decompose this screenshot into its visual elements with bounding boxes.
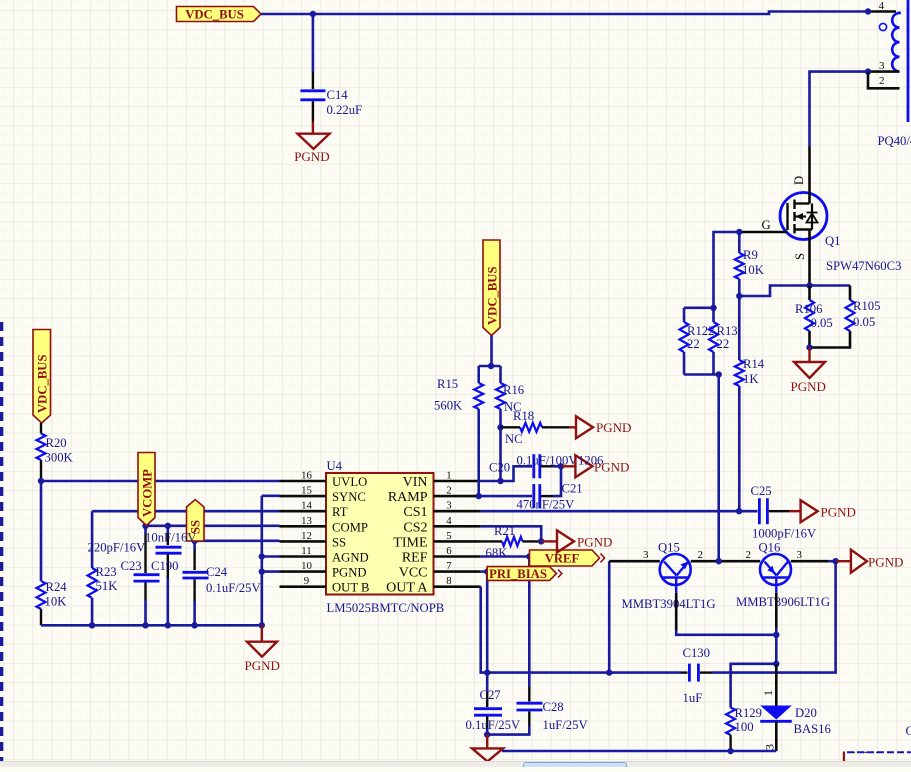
node R20 bottom / UVLO <box>38 478 44 484</box>
power port VREF <box>530 550 600 566</box>
svg-text:C21: C21 <box>562 482 583 496</box>
svg-text:S: S <box>793 253 807 260</box>
svg-text:C14: C14 <box>327 88 349 102</box>
pin 4 CS2 <box>434 525 481 528</box>
op-amp/controller U4 LM5025BMTC/NOPB <box>326 473 434 595</box>
svg-text:C24: C24 <box>206 565 228 579</box>
wire SS line <box>195 539 280 542</box>
svg-text:VIN: VIN <box>403 475 428 490</box>
node junction at C14 <box>310 11 316 17</box>
svg-text:2: 2 <box>746 549 752 561</box>
capacitor C28 1uF/25V <box>517 703 543 710</box>
node Q16/PGND/C130 <box>832 558 838 564</box>
svg-text:R18: R18 <box>513 409 534 423</box>
wire RT line <box>92 510 279 513</box>
power port VCOMP (vertical) <box>138 453 155 526</box>
wire pin3 to Q1 drain <box>810 72 869 147</box>
capacitor C20 0.1uF/100V 1206 <box>534 454 540 478</box>
wire Q15-Q16 collector link <box>691 560 761 563</box>
transistor Q15 MMBT3904LT1G (NPN) <box>660 554 691 593</box>
wire CS1 line pin3 <box>481 510 739 513</box>
svg-text:C25: C25 <box>751 484 772 498</box>
svg-text:C190: C190 <box>151 559 179 573</box>
svg-text:PGND: PGND <box>332 566 367 580</box>
diode D20 BAS16 <box>775 664 778 706</box>
svg-text:10nF/16V: 10nF/16V <box>145 531 197 545</box>
node rail end <box>259 622 265 628</box>
wire Q15 base down <box>675 593 678 630</box>
svg-text:SPW47N60C3: SPW47N60C3 <box>826 259 901 273</box>
svg-text:100: 100 <box>735 720 754 734</box>
svg-text:10K: 10K <box>45 595 68 609</box>
svg-text:220pF/16V: 220pF/16V <box>88 541 147 555</box>
power port PRI_BIAS <box>487 567 556 581</box>
node Q1 source <box>806 282 812 288</box>
resistor R105 0.05 <box>810 286 851 348</box>
svg-text:6: 6 <box>446 545 452 557</box>
transistor Q16 MMBT3906LT1G (PNP) <box>760 554 791 593</box>
svg-text:2: 2 <box>879 75 885 87</box>
node collectors to divider <box>716 558 722 564</box>
resistor R23 51K <box>91 511 94 568</box>
svg-text:LM5025BMTC/NOPB: LM5025BMTC/NOPB <box>327 601 445 615</box>
pin 3 CS1 <box>434 510 481 513</box>
resistor R106 0.05 <box>808 286 811 348</box>
node bases join <box>773 632 779 638</box>
wire bottom ground rail <box>502 750 776 753</box>
node divider bottom <box>716 371 722 377</box>
svg-text:0.22uF: 0.22uF <box>327 103 363 117</box>
svg-text:PQ40/4: PQ40/4 <box>878 134 911 148</box>
svg-text:NC: NC <box>505 432 523 446</box>
selection marquee bottom right <box>843 752 845 762</box>
svg-text:PRI_BIAS: PRI_BIAS <box>489 567 547 581</box>
svg-text:C20: C20 <box>489 461 510 475</box>
svg-text:1uF: 1uF <box>683 691 703 705</box>
transistor Q1 SPW47N60C3 (NMOS) <box>739 147 827 286</box>
svg-text:VREF: VREF <box>545 552 580 566</box>
pin 8 OUT A <box>434 585 481 588</box>
wire PGND stub <box>262 570 280 573</box>
svg-text:D: D <box>792 176 806 185</box>
svg-text:VDC_BUS: VDC_BUS <box>185 7 244 21</box>
resistor R18 NC (horizontal) <box>501 426 521 428</box>
node C20/C21 right <box>558 463 564 469</box>
ground PGND arrow at C25 <box>789 510 801 512</box>
svg-text:UVLO: UVLO <box>332 475 367 489</box>
node R23 rail <box>89 622 95 628</box>
svg-text:R23: R23 <box>96 565 117 579</box>
node PGND pin <box>259 568 265 574</box>
power port VDC_BUS (middle, vertical) <box>483 240 500 336</box>
svg-text:0.05: 0.05 <box>853 315 875 329</box>
svg-text:3: 3 <box>797 549 803 561</box>
svg-text:PGND: PGND <box>868 555 903 570</box>
svg-text:13: 13 <box>301 515 312 527</box>
wire RAMP pin2 to C21 <box>481 495 532 498</box>
svg-text:51K: 51K <box>96 579 119 593</box>
svg-text:15: 15 <box>301 485 312 497</box>
wire VREF branch down to C28 <box>528 557 531 688</box>
svg-text:C27: C27 <box>480 688 501 702</box>
wire CS2 pin4 jog to TIME row <box>481 526 541 541</box>
svg-text:1000pF/16V: 1000pF/16V <box>752 527 817 541</box>
ground PGND below C27 <box>486 735 488 749</box>
pin 6 REF <box>434 555 481 558</box>
svg-text:TIME: TIME <box>393 535 427 550</box>
svg-text:1K: 1K <box>743 372 759 386</box>
svg-text:7: 7 <box>446 560 452 572</box>
svg-text:14: 14 <box>301 500 312 512</box>
wire R9 to source node <box>739 286 809 297</box>
node sense bottom <box>806 344 812 350</box>
svg-text:22: 22 <box>717 337 730 351</box>
resistor R129 100 <box>726 708 735 735</box>
wire gate network <box>714 232 740 308</box>
pin 11 AGND <box>280 555 327 558</box>
svg-text:3: 3 <box>763 744 777 750</box>
svg-text:0.1uF/25V: 0.1uF/25V <box>206 581 261 595</box>
svg-text:8: 8 <box>446 575 451 587</box>
svg-text:470nF/25V: 470nF/25V <box>517 498 576 512</box>
svg-text:R20: R20 <box>46 436 67 450</box>
svg-text:PGND: PGND <box>245 658 280 673</box>
ground PGND arrow at C20 <box>561 465 575 467</box>
svg-text:R24: R24 <box>46 580 68 594</box>
power port SS (vertical, point up) <box>187 500 205 542</box>
svg-text:1: 1 <box>761 690 775 696</box>
svg-text:R21: R21 <box>494 524 515 538</box>
node AGND <box>259 553 265 559</box>
resistor R21 68K (horizontal) on pin5 <box>481 540 502 542</box>
power port VDC_BUS (left, vertical) <box>33 330 51 424</box>
capacitor C23 220pF/16V <box>144 526 147 534</box>
wire Q16 right to PGND <box>791 560 828 563</box>
svg-text:68K: 68K <box>486 546 509 560</box>
node C190 top <box>165 523 171 529</box>
node R16/R18 <box>497 424 503 430</box>
svg-text:C23: C23 <box>121 559 142 573</box>
wire COMP line <box>146 524 280 527</box>
svg-text:16: 16 <box>301 470 312 482</box>
pin 10 PGND <box>280 570 327 573</box>
wire REF pin6 to VREF <box>481 555 530 558</box>
svg-text:R13: R13 <box>717 324 738 338</box>
wire R122/R13 top rail <box>684 306 714 309</box>
svg-text:U4: U4 <box>327 459 343 473</box>
node C24 top / SS <box>191 538 197 544</box>
capacitor C25 1000pF/16V (series) <box>739 510 757 513</box>
svg-text:C28: C28 <box>543 700 564 714</box>
wire VDC_BUS stem to R15/R16 <box>490 336 493 367</box>
svg-text:3: 3 <box>879 60 885 72</box>
node R129 rail <box>727 748 733 754</box>
svg-text:COMP: COMP <box>332 520 368 534</box>
svg-text:1uF/25V: 1uF/25V <box>543 718 589 732</box>
resistor R16 NC <box>499 366 502 383</box>
capacitor C21 470nF/25V <box>534 484 540 508</box>
resistor R20 300K <box>40 423 42 434</box>
svg-text:5: 5 <box>446 530 451 542</box>
pin 2 RAMP <box>434 495 481 498</box>
svg-text:AGND: AGND <box>332 551 369 565</box>
svg-text:3: 3 <box>643 549 649 561</box>
wire VIN pin1 to C20 <box>481 466 532 481</box>
svg-text:R106: R106 <box>795 302 823 316</box>
node R16 to VIN <box>497 478 503 484</box>
ground PGND below C14 <box>312 122 314 134</box>
svg-text:VDC_BUS: VDC_BUS <box>35 354 49 413</box>
node gate-divider junction <box>710 305 716 311</box>
wire base node to R129 <box>731 664 777 708</box>
svg-text:PGND: PGND <box>596 420 631 435</box>
node CS1/R14/C25 <box>736 508 742 514</box>
node drive to Q15 <box>606 669 612 675</box>
wire R122/R13 bottom rail <box>684 373 719 376</box>
wire VCC pin7 to PRI_BIAS <box>481 570 487 573</box>
capacitor C27 0.1uF/25V <box>474 709 502 716</box>
ground PGND arrow right of Q16 <box>836 560 851 562</box>
svg-text:C3: C3 <box>906 724 911 738</box>
transformer pin 2 <box>868 72 900 89</box>
wire OUT_A pin8 drive line <box>481 587 610 673</box>
ground PGND below shunts <box>808 348 810 363</box>
power port VDC_BUS (top) <box>177 7 262 22</box>
pin 15 SYNC <box>280 495 327 498</box>
node R15 to RAMP <box>476 493 482 499</box>
wire left ground rail <box>41 624 262 627</box>
svg-text:1206: 1206 <box>578 454 603 468</box>
svg-text:PGND: PGND <box>821 505 856 520</box>
resistor R14 1K <box>738 296 741 360</box>
wire SYNC ground branch <box>262 494 280 497</box>
node C23 rail <box>142 622 148 628</box>
svg-text:BAS16: BAS16 <box>794 722 831 736</box>
wire VDC_BUS bus top <box>261 12 868 15</box>
svg-text:REF: REF <box>402 551 428 566</box>
svg-text:RAMP: RAMP <box>388 490 428 505</box>
svg-text:12: 12 <box>301 530 312 542</box>
sheet border <box>0 322 3 767</box>
svg-text:R129: R129 <box>735 706 763 720</box>
node R9 bottom <box>736 293 742 299</box>
svg-text:VCOMP: VCOMP <box>140 469 154 517</box>
node C24 rail <box>191 622 197 628</box>
node base drive / D20 <box>773 661 779 667</box>
node R21/pin4 <box>538 538 544 544</box>
svg-text:2: 2 <box>446 485 451 497</box>
svg-text:Q15: Q15 <box>658 541 680 555</box>
pin 7 VCC <box>434 570 481 573</box>
svg-text:VDC_BUS: VDC_BUS <box>485 266 499 325</box>
pin 1 VIN <box>434 480 481 483</box>
svg-text:MMBT3904LT1G: MMBT3904LT1G <box>622 597 716 611</box>
svg-text:PGND: PGND <box>791 379 826 394</box>
node OUT_A/VCC-branch cross <box>484 669 490 675</box>
svg-text:RT: RT <box>332 505 348 519</box>
node REF <box>526 553 532 559</box>
resistor R15 560K <box>477 366 480 383</box>
polarity dot of winding <box>879 23 886 30</box>
svg-text:0.1uF/25V: 0.1uF/25V <box>466 718 521 732</box>
resistor R9 10K <box>738 232 741 253</box>
transformer pin 3 <box>868 70 900 73</box>
svg-text:CS2: CS2 <box>403 520 427 535</box>
svg-text:D20: D20 <box>795 706 817 720</box>
transformer right-side winding line <box>907 0 910 122</box>
resistor R122 22 <box>683 308 686 322</box>
resistor R13 22 <box>712 308 715 322</box>
svg-text:C130: C130 <box>683 646 711 660</box>
svg-text:0.05: 0.05 <box>811 316 833 330</box>
svg-text:10: 10 <box>301 560 312 572</box>
capacitor C130 1uF (series, horizontal) <box>609 671 681 674</box>
ground PGND arrow at R18 <box>569 426 576 428</box>
node C190 rail <box>165 622 171 628</box>
node VCC <box>484 568 490 574</box>
svg-text:SS: SS <box>332 535 346 549</box>
svg-text:G: G <box>762 218 771 232</box>
svg-text:R15: R15 <box>437 377 458 391</box>
svg-text:SYNC: SYNC <box>332 490 366 504</box>
capacitor C24 0.1uF/25V <box>193 541 196 549</box>
svg-text:VCC: VCC <box>399 566 428 581</box>
svg-text:OUT A: OUT A <box>386 581 428 596</box>
capacitor C14 <box>312 14 315 72</box>
svg-text:Q1: Q1 <box>825 234 841 248</box>
pin 14 RT <box>280 510 327 513</box>
svg-text:22: 22 <box>687 337 700 351</box>
svg-text:R14: R14 <box>743 357 765 371</box>
svg-text:R9: R9 <box>743 248 758 262</box>
transformer winding T (PQ40) top-right <box>868 10 896 13</box>
svg-text:300K: 300K <box>45 451 74 465</box>
svg-text:R16: R16 <box>503 383 524 397</box>
svg-text:4: 4 <box>446 515 452 527</box>
pin 12 SS <box>280 540 327 543</box>
svg-text:Q16: Q16 <box>759 541 781 555</box>
svg-text:2: 2 <box>698 549 704 561</box>
svg-text:3: 3 <box>446 500 451 512</box>
svg-text:CS1: CS1 <box>403 505 427 520</box>
wire Q16 base down <box>775 593 778 628</box>
wire AGND stub <box>262 555 280 558</box>
svg-text:1: 1 <box>446 470 451 482</box>
wire VCC branch down to C27 <box>486 572 489 692</box>
ground PGND below left rail <box>261 625 263 641</box>
node C27 bottom <box>484 731 490 737</box>
wire divider to Q15/Q16 collectors <box>717 375 720 562</box>
node R15/R16 top <box>488 363 494 369</box>
svg-text:OUT B: OUT B <box>332 581 369 595</box>
svg-text:560K: 560K <box>434 399 463 413</box>
svg-text:9: 9 <box>304 575 309 587</box>
resistor R24 10K <box>40 481 43 581</box>
svg-text:4: 4 <box>879 0 885 12</box>
pin 16 UVLO <box>280 480 327 483</box>
ground PGND arrow at TIME <box>541 540 557 542</box>
wire UVLO line to pin16 <box>41 480 280 483</box>
wire source sense branch <box>810 284 851 287</box>
svg-text:R105: R105 <box>853 299 881 313</box>
wire drive vertical to Q15 collector <box>608 561 611 672</box>
pin 9 OUT B <box>280 585 327 588</box>
svg-text:11: 11 <box>301 545 311 557</box>
svg-text:10K: 10K <box>742 263 765 277</box>
pin 13 COMP <box>280 525 327 528</box>
pin 5 TIME <box>434 540 481 543</box>
capacitor C190 10nF/16V <box>167 526 170 533</box>
svg-text:MMBT3906LT1G: MMBT3906LT1G <box>736 595 830 609</box>
svg-text:PGND: PGND <box>294 149 329 164</box>
node C23 top <box>142 523 148 529</box>
svg-text:PGND: PGND <box>577 535 612 550</box>
